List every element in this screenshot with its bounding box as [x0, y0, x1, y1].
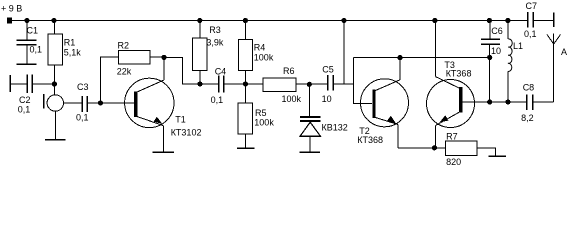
resistor R3: [193, 21, 224, 85]
svg-text:R4: R4: [254, 43, 266, 53]
capacitor C1: [16, 21, 42, 65]
resistor R7: [446, 132, 496, 167]
svg-text:22k: 22k: [117, 67, 132, 77]
svg-text:R1: R1: [64, 38, 76, 48]
node rail-C1: [24, 18, 29, 23]
node C6/tank to output line: [487, 99, 492, 104]
svg-text:0,1: 0,1: [211, 95, 224, 105]
resistor R1: [48, 21, 81, 85]
wire T2/T3 emitters to R7: [398, 147, 446, 149]
capacitor C2: [10, 74, 54, 114]
varicap VD1 KB132: [300, 84, 348, 152]
capacitor C3: [76, 82, 101, 123]
svg-text:R3: R3: [209, 25, 221, 35]
node T2collector-tank: [397, 55, 402, 60]
ground under R5: [237, 147, 255, 149]
node rail-R1: [51, 18, 56, 23]
wire mic to C3: [64, 102, 82, 104]
svg-text:R6: R6: [283, 66, 295, 76]
node rail-R3: [197, 18, 202, 23]
node rail-T2base drop: [341, 18, 346, 23]
wire T1 collector to mid bus: [164, 57, 219, 84]
node L1 to output line: [505, 99, 510, 104]
svg-text:3,9k: 3,9k: [206, 38, 224, 48]
svg-text:А: А: [561, 47, 567, 57]
node emitters: [432, 145, 437, 150]
node rail-L1: [505, 18, 510, 23]
svg-text:10: 10: [491, 46, 501, 56]
inductor L1: [508, 21, 523, 103]
svg-text:100k: 100k: [282, 94, 302, 104]
node R4-R5-bus: [243, 81, 248, 86]
svg-text:С1: С1: [27, 26, 39, 36]
antenna terminal bar: [553, 13, 555, 27]
capacitor C7: [524, 1, 537, 39]
svg-text:Т1: Т1: [175, 115, 186, 125]
svg-text:R5: R5: [255, 108, 267, 118]
svg-text:С4: С4: [215, 67, 227, 77]
ground at R7: [488, 155, 506, 157]
svg-text:0,1: 0,1: [76, 113, 89, 123]
svg-text:100k: 100k: [254, 118, 274, 128]
node R6-C5-varicap: [307, 82, 312, 87]
transistor T3 (mirrored): [427, 21, 526, 148]
node rail-R4: [243, 18, 248, 23]
resistor R2: [117, 41, 164, 77]
svg-text:0,1: 0,1: [30, 45, 43, 55]
capacitor C8: [508, 83, 554, 124]
svg-text:0,1: 0,1: [524, 29, 537, 39]
svg-text:100k: 100k: [254, 53, 274, 63]
battery terminal square: [7, 18, 12, 24]
capacitor C5: [322, 65, 354, 105]
ground under T1 emitter: [153, 151, 175, 153]
wire tank line y57: [353, 56, 489, 58]
svg-text:С6: С6: [491, 26, 503, 36]
svg-text:0,1: 0,1: [18, 104, 31, 114]
node C6-tank: [487, 55, 492, 60]
svg-text:5,1k: 5,1k: [64, 48, 82, 58]
node C3-R2-T1base: [98, 100, 103, 105]
svg-text:+ 9 В: + 9 В: [1, 4, 22, 14]
resistor R5: [238, 84, 274, 148]
svg-text:КТ368: КТ368: [357, 135, 383, 145]
resistor R6: [263, 66, 328, 104]
svg-text:КТ368: КТ368: [446, 69, 472, 79]
transistor T1: [101, 57, 202, 152]
wire T2 base node: [353, 57, 372, 103]
antenna symbol: [547, 34, 567, 103]
svg-text:L1: L1: [513, 41, 523, 51]
wire node up to R2: [101, 57, 119, 103]
svg-text:R2: R2: [118, 41, 130, 51]
svg-text:R7: R7: [446, 132, 458, 142]
svg-text:820: 820: [446, 157, 461, 167]
node rail-C6: [487, 18, 492, 23]
wire rail right of C7: [534, 20, 554, 22]
node R1-C2-mic: [52, 81, 57, 86]
svg-text:8,2: 8,2: [521, 113, 534, 123]
wire top rail: [12, 20, 527, 22]
microphone BM1: [44, 84, 64, 140]
ground under C1: [17, 63, 37, 65]
node R3-bus: [197, 81, 202, 86]
node R2-T1collector: [161, 55, 166, 60]
svg-text:КВ132: КВ132: [322, 123, 348, 133]
capacitor C6: [481, 21, 503, 103]
svg-text:С5: С5: [322, 65, 334, 75]
wire rail drop to T2 base node: [343, 21, 345, 85]
svg-text:С3: С3: [77, 82, 89, 92]
svg-text:10: 10: [322, 94, 332, 104]
transistor T2: [357, 57, 408, 147]
svg-text:С7: С7: [526, 1, 538, 11]
capacitor C4: [211, 67, 263, 106]
node rail-T3collector: [432, 18, 437, 23]
svg-text:С8: С8: [523, 83, 535, 93]
ground under varicap: [300, 151, 320, 153]
svg-text:КТ3102: КТ3102: [171, 128, 202, 138]
resistor R4: [239, 21, 274, 85]
ground under mic: [45, 139, 66, 141]
